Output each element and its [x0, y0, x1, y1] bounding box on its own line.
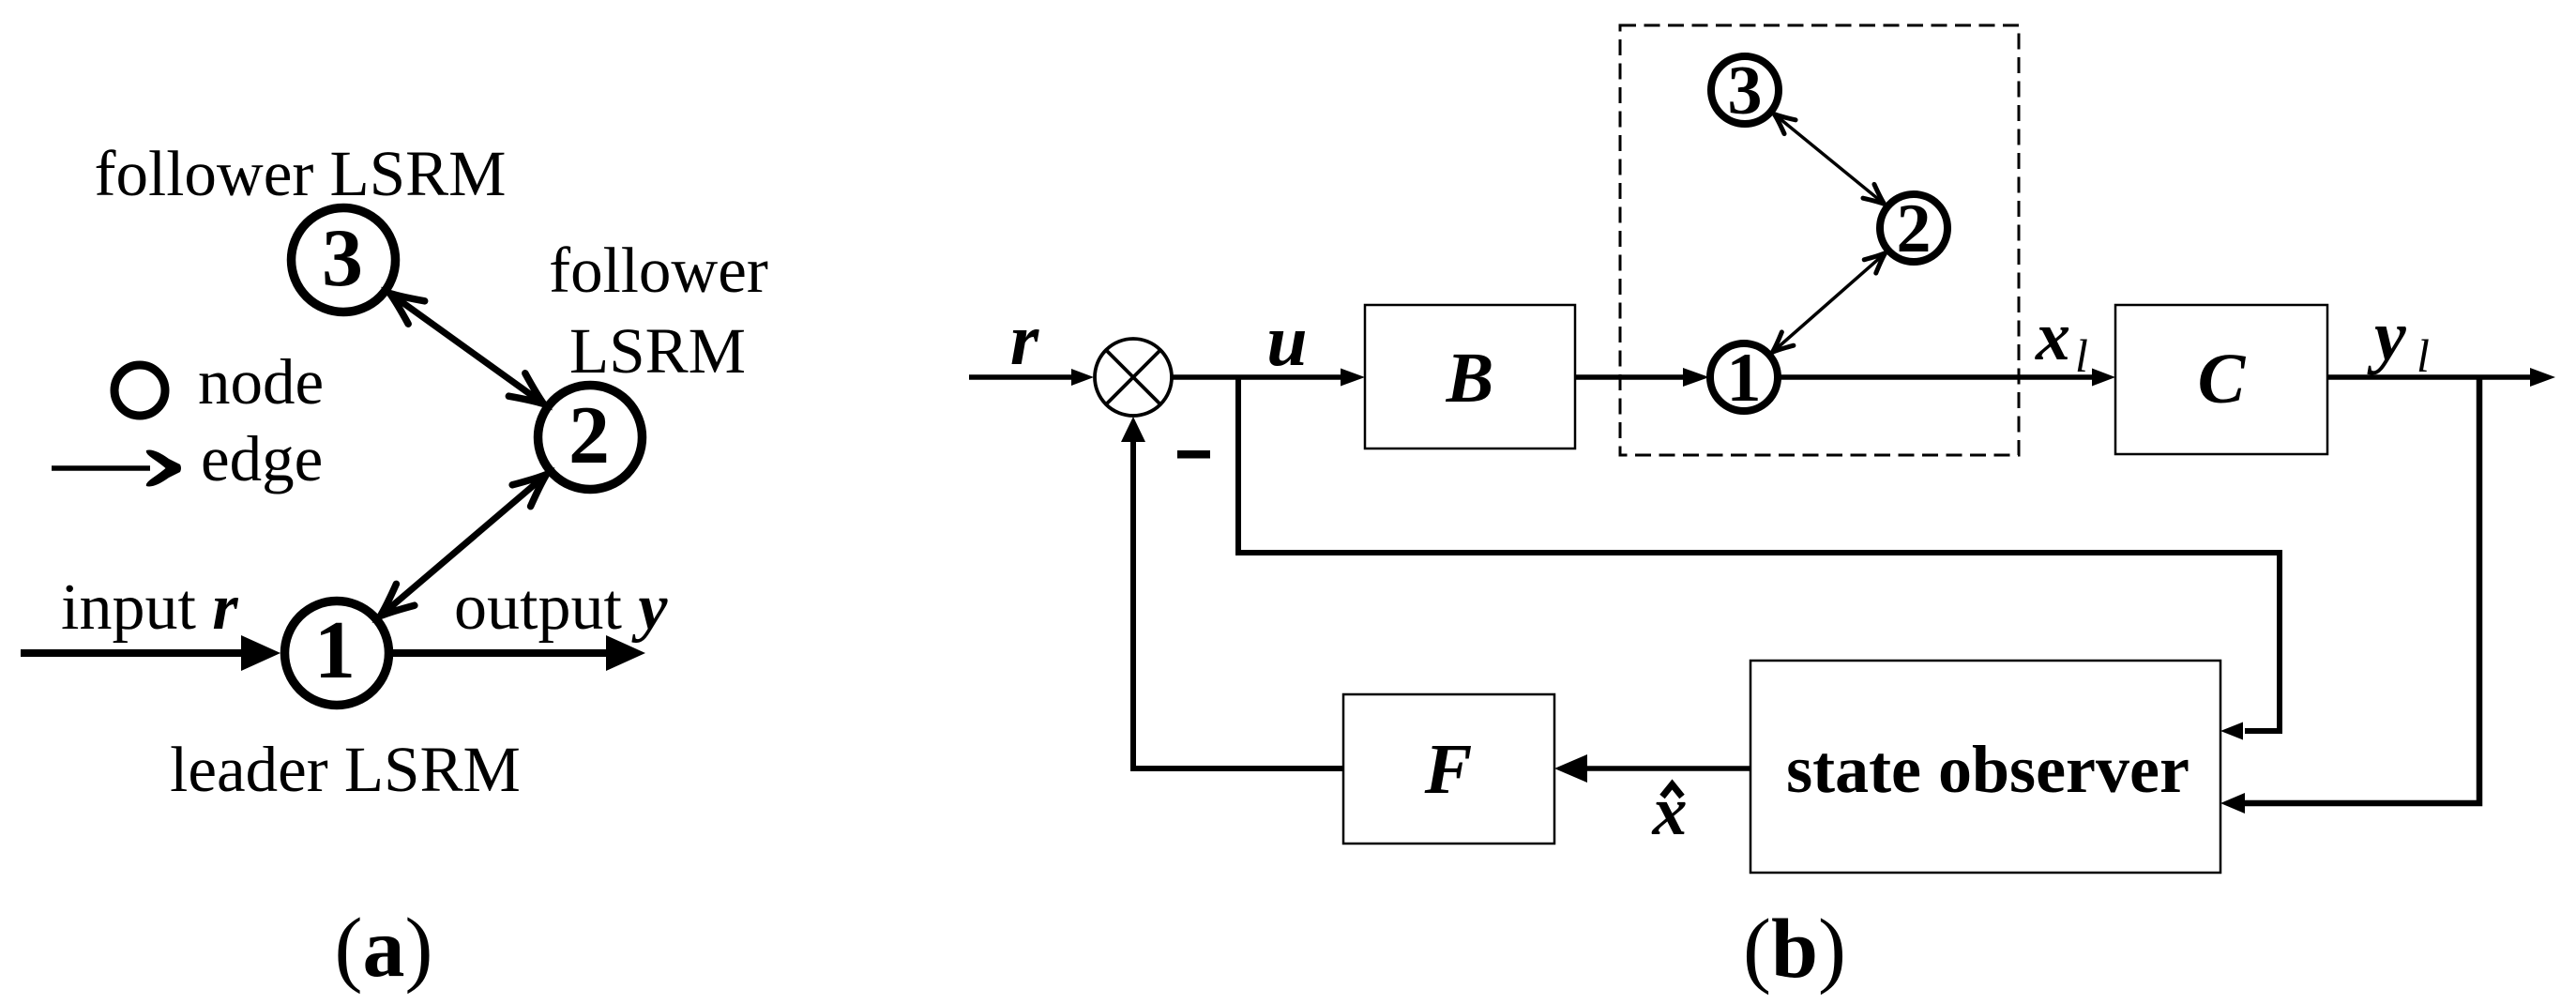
wire observer to F — [1554, 754, 1750, 783]
svg-text:x: x — [2035, 298, 2070, 375]
svg-text:state observer: state observer — [1786, 732, 2190, 807]
wire B to node 1 — [1575, 368, 1709, 387]
dashed subsystem box — [1620, 25, 2019, 455]
legend label "edge" — [201, 423, 323, 494]
svg-text:r: r — [1010, 298, 1039, 380]
wire r into summing junction — [969, 369, 1094, 386]
block C — [2115, 305, 2327, 454]
svg-text:input r: input r — [61, 571, 238, 644]
svg-text:u: u — [1266, 299, 1307, 381]
output wire y_l with final arrow — [2327, 368, 2555, 387]
svg-text:follower LSRM: follower LSRM — [95, 138, 507, 209]
label "follower LSRM" for node 3 — [95, 138, 507, 209]
svg-text:LSRM: LSRM — [569, 315, 746, 387]
wire F to summing junction (left then up with arrow) — [1121, 417, 1343, 768]
svg-text:F: F — [1424, 730, 1473, 809]
svg-text:C: C — [2198, 340, 2247, 418]
input wire with arrow into node 1 — [21, 635, 280, 671]
svg-text:y: y — [2367, 297, 2406, 375]
caption (b) — [1743, 903, 1846, 996]
wire summing junction to B — [1172, 369, 1365, 387]
svg-text:output y: output y — [454, 571, 668, 644]
label u — [1266, 299, 1307, 381]
edge node2-node1 (panel b, bidirectional) — [1766, 247, 1891, 359]
legend edge arrow — [52, 450, 181, 487]
node 2 (panel b) — [1880, 190, 1947, 267]
node 3 (panel b) — [1711, 53, 1779, 129]
edge node3-node2 (panel b, bidirectional) — [1768, 107, 1889, 210]
block F — [1343, 694, 1554, 844]
label r — [1010, 298, 1039, 380]
svg-text:2: 2 — [568, 390, 610, 481]
label x-hat — [1652, 773, 1688, 850]
label "output y" — [454, 571, 668, 644]
node 1 (panel b) — [1710, 340, 1778, 417]
label "follower LSRM" for node 2 (two lines) — [549, 235, 768, 387]
summing junction — [1095, 339, 1172, 416]
node 1 (panel a) — [285, 601, 389, 706]
svg-text:follower: follower — [549, 235, 768, 306]
node 3 (panel a) — [292, 208, 396, 312]
svg-text:1: 1 — [1727, 340, 1762, 417]
svg-text:node: node — [198, 346, 324, 418]
svg-text:1: 1 — [314, 605, 356, 696]
legend node symbol — [114, 365, 165, 416]
svg-text:l: l — [2417, 329, 2430, 382]
edge between node 1 and node 2 (bidirectional) — [371, 464, 556, 627]
caption (a) — [335, 902, 433, 995]
block B — [1365, 305, 1575, 449]
legend label "node" — [198, 346, 324, 418]
svg-text:B: B — [1446, 339, 1494, 418]
label "leader LSRM" — [170, 734, 521, 805]
svg-text:leader LSRM: leader LSRM — [170, 734, 521, 805]
svg-text:edge: edge — [201, 423, 323, 494]
svg-text:3: 3 — [1728, 53, 1763, 129]
block state observer — [1750, 661, 2220, 873]
svg-text:(a): (a) — [335, 902, 433, 995]
svg-text:2: 2 — [1897, 190, 1932, 267]
output wire with arrow from node 1 — [392, 635, 645, 671]
y_l feedback branch into observer — [2220, 377, 2479, 814]
svg-text:(b): (b) — [1743, 903, 1846, 996]
edge between node 3 and node 2 (bidirectional) — [382, 281, 552, 415]
label x_l — [2035, 298, 2088, 382]
label "input r" — [61, 571, 238, 644]
wire node 1 to C — [1778, 369, 2115, 387]
label y_l — [2367, 297, 2430, 382]
svg-text:3: 3 — [322, 213, 363, 304]
node 2 (panel a) — [538, 386, 643, 490]
u feedback branch wire (down, right, down into observer) — [1238, 375, 2280, 740]
minus sign — [1177, 450, 1210, 459]
svg-text:l: l — [2075, 329, 2088, 382]
